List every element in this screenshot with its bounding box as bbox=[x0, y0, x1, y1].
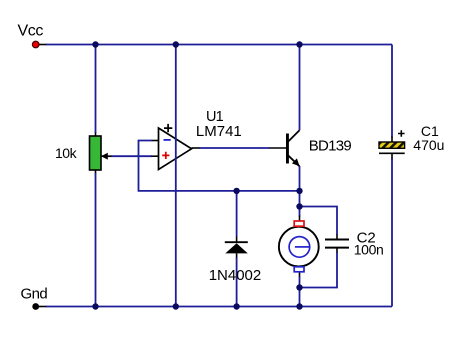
wire: motor bottom to bottom rail bbox=[299, 273, 301, 278]
transistor Q1 emitter arrow bbox=[292, 158, 300, 166]
svg-text:1N4002: 1N4002 bbox=[209, 267, 262, 284]
wire: Vcc top rail bbox=[39, 44, 48, 46]
capacitor C1 bottom plate bbox=[379, 152, 405, 154]
junction C2 bottom bbox=[296, 284, 302, 290]
wire: Gnd bottom rail bbox=[39, 306, 48, 308]
wire: emitter down to motor bbox=[299, 166, 301, 217]
junction feedback diode bbox=[233, 188, 239, 194]
junction bottom rail pot bbox=[92, 303, 98, 309]
op-amp U1 body bbox=[159, 128, 192, 170]
junction bottom rail motor bbox=[296, 303, 302, 309]
op-amp positive supply marker bbox=[164, 124, 172, 132]
wire: pot top branch bbox=[95, 45, 97, 134]
svg-text:100n: 100n bbox=[354, 241, 384, 257]
junction bottom rail power line bbox=[173, 303, 179, 309]
wire: right rail below C1 to bottom rail bbox=[391, 153, 393, 160]
svg-text:10k: 10k bbox=[55, 145, 78, 161]
svg-text:BD139: BD139 bbox=[309, 137, 352, 154]
node: Vcc terminal bbox=[32, 41, 39, 48]
motor M1 inner symbol bbox=[289, 237, 310, 258]
junction top rail pot bbox=[92, 41, 98, 47]
diode D1 cathode bar bbox=[225, 241, 248, 243]
wire: inverting input net and feedback bbox=[152, 140, 159, 142]
potentiometer 10k body bbox=[90, 136, 102, 170]
junction feedback emitter bbox=[296, 188, 302, 194]
motor M1 body bbox=[279, 227, 319, 267]
transistor Q1 collector bbox=[288, 130, 300, 142]
junction C2 top bbox=[296, 203, 302, 209]
svg-text:Vcc: Vcc bbox=[18, 22, 44, 39]
svg-text:470u: 470u bbox=[413, 137, 444, 153]
wire: wiper to op-amp + input bbox=[102, 155, 113, 157]
wire: pot bottom branch bbox=[95, 170, 97, 175]
transistor Q1 base bar bbox=[286, 134, 289, 164]
junction top rail collector bbox=[296, 41, 302, 47]
junction bottom rail diode bbox=[233, 303, 239, 309]
op-amp non-inverting input marker bbox=[162, 152, 169, 159]
svg-text:LM741: LM741 bbox=[196, 123, 242, 140]
svg-text:Gnd: Gnd bbox=[21, 285, 48, 302]
wire: op-amp power line Vcc to Gnd bbox=[175, 45, 177, 307]
capacitor C1 polarity plus bbox=[398, 130, 405, 137]
transistor Q1 emitter bbox=[288, 155, 300, 166]
node: Gnd terminal bbox=[32, 303, 39, 310]
diode D1 triangle bbox=[225, 243, 248, 253]
motor M1 positive terminal bbox=[294, 221, 304, 226]
wire: C2 loop bbox=[300, 207, 338, 236]
wire: collector branch bbox=[299, 45, 301, 131]
capacitor C2 plates bbox=[325, 239, 349, 241]
potentiometer wiper arrow bbox=[101, 153, 108, 160]
wire: right rail down to C1 bbox=[391, 45, 393, 138]
motor M1 negative terminal bbox=[294, 267, 304, 272]
wire: op-amp output to base bbox=[192, 147, 201, 149]
capacitor C1 top plate bbox=[379, 142, 405, 148]
wire: diode branch bbox=[236, 191, 238, 237]
op-amp inverting input marker bbox=[164, 139, 171, 141]
junction top rail power line bbox=[173, 41, 179, 47]
